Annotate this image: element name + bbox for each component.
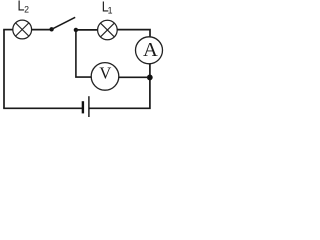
lamp L2 — [13, 20, 32, 39]
wire voltmeter to junction — [119, 76, 148, 78]
battery negative plate short — [82, 101, 84, 113]
voltmeter U-V — [91, 63, 119, 91]
battery positive plate long — [88, 96, 90, 117]
lamp L1 — [98, 20, 118, 40]
wire L1 to top-right corner down to ammeter — [117, 30, 150, 38]
wire left vertical — [3, 30, 5, 109]
wire battery to bottom-left — [3, 107, 82, 109]
wire switch to lamp L1 — [76, 29, 98, 31]
wire ammeter down to bottom-right corner — [89, 64, 150, 109]
switch lever — [52, 17, 76, 29]
svg-text:V: V — [99, 64, 111, 83]
switch left contact dot — [49, 27, 53, 31]
svg-text:2: 2 — [24, 5, 29, 15]
switch right contact dot — [74, 28, 78, 32]
wire switch branch down and right to voltmeter — [76, 31, 91, 78]
wire top-left to lamp L2 — [3, 29, 13, 31]
svg-text:A: A — [143, 39, 158, 61]
junction dot node — [147, 75, 153, 81]
svg-text:1: 1 — [108, 5, 113, 15]
ammeter U-A — [136, 37, 163, 64]
wire L2 to switch — [32, 29, 50, 31]
